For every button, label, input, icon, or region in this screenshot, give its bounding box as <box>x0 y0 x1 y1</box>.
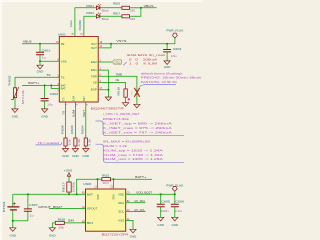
svg-text:TS: TS <box>62 111 66 115</box>
callout line EN table <box>123 62 126 65</box>
junction LED resistors to VBUS <box>140 7 142 9</box>
wire C607 bottom <box>27 212 29 221</box>
junction BATT+/C602 <box>44 84 46 86</box>
IC U606 BQ27220 body <box>86 189 126 231</box>
svg-text:GPOUT: GPOUT <box>87 207 98 211</box>
wire ILIM net <box>74 102 76 138</box>
wire C606 top <box>174 194 176 204</box>
svg-text:TMR: TMR <box>91 74 97 78</box>
svg-text:10u: 10u <box>171 54 177 58</box>
svg-text:EXP: EXP <box>91 88 97 92</box>
svg-text:BIN: BIN <box>68 218 74 222</box>
svg-text:10u: 10u <box>47 103 53 107</box>
svg-text:VSYS: VSYS <box>116 39 126 43</box>
svg-text:GND: GND <box>172 223 179 227</box>
svg-text:BATT+: BATT+ <box>28 81 39 85</box>
svg-text:K_ISET_min = 797 -> 240mA: K_ISET_min = 797 -> 240mA <box>103 131 174 135</box>
svg-text:RISET=3.32k: RISET=3.32k <box>103 117 130 121</box>
wire battery top <box>12 194 14 207</box>
svg-text:R615: R615 <box>102 173 109 177</box>
svg-text:IIN_MAX = KILIM/RILIM: IIN_MAX = KILIM/RILIM <box>103 140 151 144</box>
svg-text:BQ24073RGTR: BQ24073RGTR <box>91 107 125 111</box>
wire SRP vertical <box>97 179 99 189</box>
wire C606 bottom <box>174 207 176 217</box>
svg-text:PWR_FLAG: PWR_FLAG <box>166 28 183 32</box>
svg-text:K_ISET_typ = 890 -> 268mA: K_ISET_typ = 890 -> 268mA <box>103 121 174 125</box>
wire GND stem EXP <box>107 90 109 97</box>
wire R604 to GND <box>85 146 87 149</box>
ground below C602 <box>42 109 48 113</box>
svg-text:GND: GND <box>157 223 164 227</box>
svg-text:TS: TS <box>61 75 65 79</box>
LED D601 <box>97 6 100 10</box>
wire TS bottom net <box>65 102 67 138</box>
svg-text:2.2u: 2.2u <box>175 209 182 213</box>
wire VSS pin to GND <box>40 60 59 62</box>
svg-text:0 0 100mA: 0 0 100mA <box>129 57 158 61</box>
svg-text:TMR: TMR <box>116 73 123 77</box>
resistor R616 <box>124 89 127 97</box>
svg-text:10m: 10m <box>102 181 109 185</box>
svg-text:ILIM: ILIM <box>71 109 75 117</box>
svg-text:100n: 100n <box>161 209 169 213</box>
wire EN2 to hier label <box>98 61 112 63</box>
thermistor TH602 <box>13 88 16 98</box>
junction OUT pins <box>110 43 112 45</box>
svg-text:OTG2: OTG2 <box>113 60 120 64</box>
wire to VBUS label top right <box>141 7 157 9</box>
wire R608 to GND <box>65 146 67 149</box>
ground below U606 VSS <box>130 229 136 233</box>
svg-text:BATT+: BATT+ <box>135 175 146 179</box>
svg-text:R617: R617 <box>62 182 66 193</box>
junction VSS/C601/GND <box>39 60 41 62</box>
wire GPOUT <box>49 208 86 210</box>
svg-text:K_ISET_max = 975 -> 293mA: K_ISET_max = 975 -> 293mA <box>103 126 174 130</box>
wire VDD rail <box>126 193 175 195</box>
junction rail/C607 <box>27 193 29 195</box>
svg-text:1u: 1u <box>30 213 34 217</box>
wire TS pin to thermistor <box>15 77 59 88</box>
junction VDD/C606/PWR_FLAG <box>174 193 176 195</box>
svg-text:+3V0: +3V0 <box>64 168 73 172</box>
wire R607 right joins up <box>130 8 141 16</box>
junction VDD/C605 <box>160 193 162 195</box>
svg-text:ISET: ISET <box>83 96 86 101</box>
junction rail/SRP sense <box>76 193 78 195</box>
ground below R608 <box>62 149 68 153</box>
resistor R608 <box>64 138 67 146</box>
wire OUT pin2 connector <box>98 44 111 48</box>
wire C601 bottom to VSS net <box>39 55 41 61</box>
svg-text:R605: R605 <box>113 2 120 6</box>
svg-text:GND: GND <box>37 70 44 74</box>
IC U601 BQ24073 body <box>59 37 98 102</box>
svg-text:CHG: CHG <box>69 19 73 27</box>
wire R615 right lead <box>111 178 114 180</box>
svg-text:3.3k: 3.3k <box>88 138 92 146</box>
ground below TH602 <box>12 109 18 113</box>
power flag PWR_FLAG (VSYS) <box>173 33 178 38</box>
ground below C606 <box>172 217 178 221</box>
svg-text:GND: GND <box>83 154 90 158</box>
wire thermistor to GND <box>14 98 16 109</box>
svg-text:CE: CE <box>116 78 120 82</box>
wire R605 right <box>130 7 141 9</box>
svg-text:VBUS: VBUS <box>23 39 32 43</box>
capacitor C607 <box>24 209 32 211</box>
wire R618 left to GND <box>52 222 55 224</box>
svg-text:1 0 K ILIM: 1 0 K ILIM <box>129 62 158 66</box>
svg-text:GND: GND <box>10 233 17 237</box>
wire SCL <box>126 211 146 213</box>
ground below R606 <box>72 149 78 153</box>
svg-text:I2C_SCL: I2C_SCL <box>134 208 145 212</box>
svg-text:default timers (floating):: default timers (floating): <box>141 71 183 75</box>
capacitor C603 <box>163 50 171 52</box>
ground below R604 <box>83 149 89 153</box>
ground below C603 <box>164 61 170 65</box>
svg-text:PGOOD: PGOOD <box>78 20 82 31</box>
wire BAT pin2 connector <box>51 85 59 88</box>
wire PWR_FLAG stem <box>174 38 176 44</box>
wire C602 top <box>44 85 46 98</box>
ground below R616 <box>123 103 129 107</box>
svg-text:GND: GND <box>41 114 48 118</box>
svg-text:C603: C603 <box>173 47 182 51</box>
callout bracket ILIM <box>96 144 185 162</box>
wire sense to BAT rail <box>77 179 98 194</box>
svg-text:R618: R618 <box>58 217 65 221</box>
wire CE to R616 <box>98 83 125 89</box>
svg-text:PWR_FLAG: PWR_FLAG <box>166 184 183 188</box>
wire battery bottom <box>12 210 14 221</box>
resistor R618 <box>55 221 64 224</box>
ERC marker diamond at R616 <box>128 98 131 101</box>
svg-text:EN2: EN2 <box>91 60 97 64</box>
wire R616 to GND <box>125 97 127 103</box>
svg-text:330: 330 <box>130 17 136 21</box>
wire BAT rail <box>13 193 86 195</box>
wire PGOOD pin up <box>84 16 97 36</box>
junction VBUS/C601 <box>39 43 41 45</box>
svg-text:GND: GND <box>72 154 79 158</box>
svg-text:R607: R607 <box>113 12 120 16</box>
svg-text:CE: CE <box>93 81 97 85</box>
wire C601 top <box>39 44 41 52</box>
svg-text:C606: C606 <box>175 200 184 204</box>
wire C605 top <box>160 194 162 204</box>
svg-text:BAT: BAT <box>61 87 67 91</box>
svg-text:KILIM_max = 1720 -> 1.43A: KILIM_max = 1720 -> 1.43A <box>103 153 164 157</box>
wire SRN vertical <box>113 179 115 189</box>
wire GND stem battery <box>12 221 14 228</box>
junction rail/R617 <box>68 193 70 195</box>
svg-text:GPOUT_BQ27: GPOUT_BQ27 <box>38 205 62 209</box>
svg-text:RILIM = 1.2k: RILIM = 1.2k <box>103 144 128 148</box>
svg-text:IN: IN <box>61 42 65 46</box>
wire R615 left lead <box>98 178 102 180</box>
wire C603 top <box>166 44 168 50</box>
svg-text:KILIM_min = 1305 -> 1.25A: KILIM_min = 1305 -> 1.25A <box>103 157 164 161</box>
wire bottom link battery to C607 <box>13 220 28 222</box>
svg-text:SCL: SCL <box>118 210 124 214</box>
wire BATT+ rail <box>22 84 59 86</box>
svg-text:C605: C605 <box>161 200 170 204</box>
callout underline TD <box>36 142 62 145</box>
svg-text:I2C_SDA: I2C_SDA <box>134 199 145 203</box>
svg-text:330: 330 <box>130 9 136 13</box>
wire BATT+ bottom <box>114 178 153 180</box>
wire C602 bottom <box>44 101 46 109</box>
svg-text:VBUS: VBUS <box>144 4 154 8</box>
junction SRN/R615/BATT+ <box>112 178 114 180</box>
svg-text:VSS: VSS <box>61 59 67 63</box>
wire EXP pin <box>98 89 108 91</box>
resistor R615 <box>102 178 111 181</box>
wire C607 top <box>27 194 29 208</box>
resistor R605 <box>122 6 130 9</box>
no-connect X on TMR <box>134 88 139 97</box>
svg-text:Blue: Blue <box>102 17 109 21</box>
wire C605 bottom <box>160 207 162 217</box>
resistor R617 <box>67 182 71 192</box>
wire SDA <box>126 202 146 204</box>
junction battery/GND <box>12 220 14 222</box>
wire +3V0 to R617 <box>68 177 70 183</box>
svg-text:TS: TS <box>46 73 50 77</box>
wire CHG pin up <box>75 8 97 37</box>
wire VBUS to IN pin <box>22 43 59 45</box>
wire D602 to R607 <box>100 15 122 17</box>
ground below EXP <box>105 97 111 101</box>
capacitor C602 <box>41 99 49 101</box>
svg-text:C601: C601 <box>42 48 51 52</box>
svg-text:SDA: SDA <box>118 201 124 205</box>
svg-text:R608: R608 <box>60 125 64 134</box>
wire BIN to chip <box>64 222 85 224</box>
resistor R606 <box>74 138 77 146</box>
wire GND stem R618 <box>51 223 53 228</box>
ground below TMR <box>134 104 140 108</box>
ground below R618 <box>49 228 55 232</box>
svg-text:ISET: ISET <box>82 110 86 117</box>
svg-text:OUT: OUT <box>91 46 97 50</box>
svg-text:R604: R604 <box>81 125 85 134</box>
svg-text:R616: R616 <box>116 86 120 95</box>
wire VSYS rail <box>111 43 175 45</box>
svg-text:BQ27220YZFR: BQ27220YZFR <box>102 233 130 237</box>
svg-text:GND: GND <box>12 114 19 118</box>
LED D602 <box>97 14 100 18</box>
svg-text:10k: 10k <box>67 139 71 146</box>
wire OUT pin1 <box>98 43 111 45</box>
wire D601 to R605 <box>100 7 122 9</box>
svg-text:FASTCHG: 4h 5h 6h: FASTCHG: 4h 5h 6h <box>141 80 177 84</box>
capacitor C606 <box>171 204 179 206</box>
junction BATT+/BAT pins <box>50 84 52 86</box>
svg-text:PRECHG: 25min 30min 36min: PRECHG: 25min 30min 36min <box>141 76 202 80</box>
svg-text:SRP: SRP <box>96 194 100 200</box>
svg-text:1.2k: 1.2k <box>77 138 81 146</box>
junction VSYS/C603 <box>166 43 168 45</box>
power flag PWR_FLAG (VDD) <box>172 186 177 191</box>
svg-text:GND: GND <box>164 65 171 69</box>
svg-text:SRN: SRN <box>111 194 115 200</box>
svg-text:10k: 10k <box>58 226 64 230</box>
svg-text:EN1: EN1 <box>91 68 97 72</box>
svg-text:TS: TS <box>63 97 66 101</box>
resistor R607 <box>122 15 130 18</box>
ground below battery <box>10 228 16 232</box>
capacitor C601 <box>36 52 44 54</box>
svg-text:I_CHG = K_ISET/R_ISET: I_CHG = K_ISET/R_ISET <box>103 112 140 116</box>
svg-text:KILIM_typ = 1610 -> 1.34A: KILIM_typ = 1610 -> 1.34A <box>103 148 165 152</box>
wire R606 to GND <box>74 146 76 149</box>
power symbol +3V0 <box>67 173 70 178</box>
wire R617 to BAT rail <box>68 192 70 194</box>
svg-text:U601: U601 <box>58 32 66 36</box>
wire C603 bottom <box>166 52 168 61</box>
svg-text:GND: GND <box>49 233 56 237</box>
wire EN1 down to EXP/GND <box>98 70 108 90</box>
hierarchical label OTG2 on EN2 <box>112 60 122 64</box>
svg-text:VDD_BQ27: VDD_BQ27 <box>136 191 152 195</box>
svg-text:VSS: VSS <box>118 219 124 223</box>
ground below C605 <box>158 217 164 221</box>
svg-text:NTC10k: NTC10k <box>21 89 25 104</box>
wire ISET net <box>85 102 87 138</box>
svg-text:100k: 100k <box>71 181 75 192</box>
svg-text:ILIM: ILIM <box>73 96 76 101</box>
svg-text:EN2 EN1 Iin_max: EN2 EN1 Iin_max <box>127 53 166 57</box>
svg-text:GND: GND <box>130 235 137 239</box>
callout bracket ISET <box>96 121 185 136</box>
svg-text:C607: C607 <box>29 203 38 207</box>
svg-text:1u: 1u <box>42 56 46 60</box>
ground below C601 <box>37 65 43 69</box>
svg-text:TH602: TH602 <box>7 75 11 86</box>
svg-text:R606: R606 <box>70 125 74 134</box>
svg-text:VDD: VDD <box>118 192 124 196</box>
junction SRP/R615 <box>96 178 98 180</box>
callout line timers to X <box>139 85 176 87</box>
svg-text:BT601: BT601 <box>2 201 6 212</box>
svg-text:D602: D602 <box>86 11 94 15</box>
wire VSS U606 to GND <box>126 220 133 229</box>
svg-text:U606: U606 <box>83 182 91 186</box>
resistor R604 <box>84 138 87 146</box>
wire TMR <box>98 76 137 104</box>
svg-text:BAT: BAT <box>87 192 93 196</box>
svg-text:Blue: Blue <box>102 9 109 13</box>
svg-text:BIN: BIN <box>87 221 93 225</box>
battery BT601 <box>7 207 19 210</box>
wire PWR_FLAG stem bottom <box>174 191 176 194</box>
wire GND stem C601 <box>39 61 41 65</box>
svg-text:D601: D601 <box>86 4 94 8</box>
svg-text:GND: GND <box>62 154 69 158</box>
capacitor C605 <box>157 204 165 206</box>
junction EN1/EXP <box>107 89 109 91</box>
